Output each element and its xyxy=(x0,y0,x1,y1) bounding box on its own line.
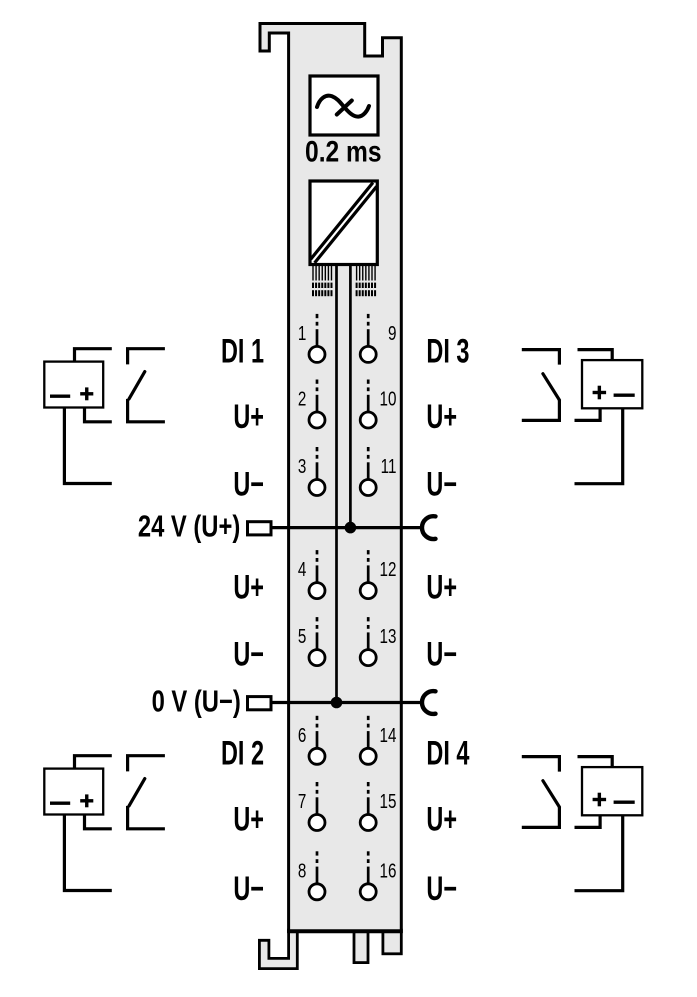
svg-text:8: 8 xyxy=(298,859,307,882)
svg-text:13: 13 xyxy=(379,625,396,648)
svg-text:6: 6 xyxy=(298,724,307,747)
svg-text:U+: U+ xyxy=(233,569,264,606)
svg-text:3: 3 xyxy=(298,455,307,478)
svg-text:24 V (U+): 24 V (U+) xyxy=(138,508,240,543)
svg-text:U−: U− xyxy=(233,466,264,503)
svg-text:U−: U− xyxy=(426,636,457,673)
svg-text:U+: U+ xyxy=(233,801,264,838)
svg-text:0.2 ms: 0.2 ms xyxy=(305,134,382,168)
svg-text:DI 4: DI 4 xyxy=(426,735,470,772)
svg-text:U+: U+ xyxy=(426,569,457,606)
svg-text:4: 4 xyxy=(298,558,307,581)
svg-text:7: 7 xyxy=(298,790,306,813)
svg-text:1: 1 xyxy=(298,322,306,345)
svg-text:10: 10 xyxy=(379,387,396,410)
svg-text:DI 1: DI 1 xyxy=(221,333,264,370)
svg-text:U−: U− xyxy=(426,871,457,908)
svg-text:14: 14 xyxy=(379,724,396,747)
svg-text:U+: U+ xyxy=(426,801,457,838)
svg-text:11: 11 xyxy=(381,455,397,478)
svg-text:12: 12 xyxy=(379,558,396,581)
svg-text:DI 3: DI 3 xyxy=(426,333,469,370)
svg-text:U+: U+ xyxy=(233,399,264,436)
svg-text:16: 16 xyxy=(379,859,396,882)
svg-text:0 V (U−): 0 V (U−) xyxy=(152,683,241,718)
svg-text:15: 15 xyxy=(379,790,396,813)
svg-text:9: 9 xyxy=(388,322,397,345)
svg-text:U−: U− xyxy=(233,636,264,673)
svg-text:U−: U− xyxy=(233,871,264,908)
svg-text:DI 2: DI 2 xyxy=(221,735,264,772)
svg-text:U+: U+ xyxy=(426,399,457,436)
svg-text:U−: U− xyxy=(426,466,457,503)
svg-text:2: 2 xyxy=(298,387,306,410)
svg-text:5: 5 xyxy=(298,625,307,648)
